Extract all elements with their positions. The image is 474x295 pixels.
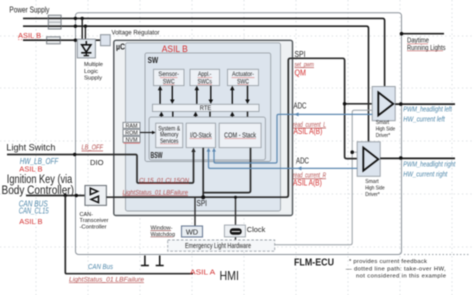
- wire power line 2: [23, 26, 369, 142]
- label ASIL B (power): [18, 31, 42, 40]
- label Smart High Side Driver 1: [376, 120, 396, 139]
- svg-text:BSW: BSW: [151, 151, 163, 160]
- svg-text:LightStatus_01 LBFailure: LightStatus_01 LBFailure: [69, 277, 145, 283]
- wire headlight left output: [395, 102, 455, 106]
- wire to clock: [234, 196, 237, 240]
- svg-text:ASIL B: ASIL B: [162, 44, 188, 54]
- smart high side driver 1: [372, 87, 395, 121]
- label Clock: [247, 225, 266, 234]
- label Voltage Regulator: [112, 29, 161, 36]
- svg-text:Emergency Light Hardware: Emergency Light Hardware: [185, 243, 251, 250]
- wire taps to multiple logic supply: [82, 18, 85, 40]
- label SPI (bus): [295, 49, 306, 59]
- wire headlight right output: [380, 156, 455, 160]
- dotted boundary continuation: [404, 254, 470, 256]
- svg-text:SPI: SPI: [197, 199, 208, 208]
- svg-text:ASIL A(B): ASIL A(B): [294, 127, 323, 136]
- label Ignition Key: [2, 172, 75, 197]
- svg-text:ASIL A: ASIL A: [190, 268, 216, 277]
- label CAN-Transceiver-Controller: [80, 212, 109, 230]
- Sensor-SWC block: [154, 69, 185, 85]
- svg-text:WD: WD: [186, 227, 198, 236]
- svg-text:FLM-ECU: FLM-ECU: [294, 258, 334, 269]
- svg-text:LightStatus_01 LBFailure: LightStatus_01 LBFailure: [123, 189, 189, 196]
- svg-text:HW_current right: HW_current right: [403, 172, 448, 179]
- svg-text:HW_current left: HW_current left: [403, 117, 445, 124]
- svg-text:set_pwm: set_pwm: [295, 61, 315, 68]
- footnote: [346, 259, 447, 279]
- svg-text:Supply: Supply: [84, 76, 102, 82]
- wire power line 3 to voltage regulator: [23, 39, 101, 41]
- svg-text:CL15_01 CL15ON: CL15_01 CL15ON: [139, 177, 189, 184]
- svg-text:LB_OFF: LB_OFF: [82, 145, 104, 152]
- label Multiple Logic Supply: [84, 62, 104, 82]
- wire ADC feedback right (blue): [207, 148, 358, 171]
- label CL15_01 CL15ON: [139, 177, 189, 184]
- wire SPI bus to drivers and watchdog: [286, 58, 372, 197]
- svg-text:DIO: DIO: [90, 158, 104, 167]
- Appl-SWCs block: [190, 69, 220, 85]
- svg-text:Voltage Regulator: Voltage Regulator: [112, 29, 161, 36]
- wire ADC feedback left (blue): [212, 112, 372, 163]
- wire power line 1: [23, 18, 385, 86]
- label set_pwm QM: [295, 61, 315, 77]
- svg-text:HMI: HMI: [220, 269, 240, 283]
- svg-text:Multiple: Multiple: [84, 62, 104, 68]
- svg-text:Smart: Smart: [365, 179, 379, 185]
- svg-text:Actuator-: Actuator-: [232, 71, 254, 78]
- svg-text:SPI: SPI: [295, 49, 306, 59]
- label Light Switch: [6, 142, 55, 152]
- voltage regulator block: [101, 35, 111, 46]
- svg-text:Appl.-: Appl.-: [198, 71, 211, 78]
- COM-Stack block: [219, 123, 261, 147]
- svg-text:PWM_headlight right: PWM_headlight right: [403, 161, 456, 168]
- label ASIL B (CAN): [19, 217, 42, 226]
- wire daytime running lights: [400, 32, 444, 36]
- ground symbol 2: [156, 256, 164, 266]
- ground symbol 1: [141, 256, 149, 266]
- label read_current_R / ASIL A(B): [293, 172, 326, 187]
- label HW_LB_OFF: [20, 157, 59, 166]
- svg-text:Logic: Logic: [84, 69, 98, 75]
- svg-text:CAN Bus: CAN Bus: [88, 264, 113, 271]
- label Daytime Running Lights: [407, 36, 446, 52]
- label DIO: [90, 158, 104, 167]
- label Window-Watchdog: [151, 225, 176, 237]
- label PWM_headlight left / HW_current left: [403, 106, 452, 123]
- svg-text:PWM_headlight left: PWM_headlight left: [403, 106, 452, 113]
- svg-text:CAN-: CAN-: [80, 212, 94, 218]
- window watchdog WD block: [182, 226, 203, 237]
- label Power Supply: [9, 4, 50, 14]
- label FLM-ECU: [294, 258, 334, 269]
- filter F1 on power lines: [48, 15, 61, 29]
- smart high side driver 2: [357, 142, 380, 177]
- svg-text:ADC: ADC: [296, 156, 309, 165]
- svg-text:Driver*: Driver*: [365, 192, 380, 198]
- label SPI (watchdog): [197, 199, 208, 208]
- label CAN BUS / CAN_CL15: [19, 199, 49, 215]
- svg-text:µC: µC: [116, 43, 125, 52]
- svg-text:RTE: RTE: [200, 105, 212, 112]
- wire IO-Stack junction to COM-Stack (upper horizontal): [203, 148, 250, 193]
- label read_current_L / ASIL A(B): [293, 122, 326, 136]
- label ASIL A: [190, 268, 216, 277]
- label CAN Bus: [88, 264, 113, 271]
- wire IO-Stack down to junction: [201, 148, 205, 199]
- svg-text:ASIL A(B): ASIL A(B): [293, 179, 322, 188]
- System Memory Services block: [156, 123, 183, 147]
- svg-text:— dotted line path: take-over: — dotted line path: take-over HW,: [346, 266, 446, 272]
- wire to window watchdog: [194, 197, 196, 226]
- wire CAN transceiver to SPI bus (lower horizontal): [106, 196, 287, 198]
- CAN transceiver controller block: [85, 186, 106, 206]
- svg-text:Sensor-: Sensor-: [158, 71, 179, 78]
- IO-Stack block: [186, 123, 215, 147]
- svg-text:RAM: RAM: [126, 123, 138, 129]
- label LightStatus_01 LBFailure (bottom): [69, 277, 145, 283]
- label PWM_headlight right / HW_current right: [403, 161, 456, 178]
- svg-text:SW: SW: [148, 55, 159, 65]
- svg-text:Light Switch: Light Switch: [6, 142, 55, 152]
- clock crystal: [224, 225, 245, 237]
- svg-text:NVM: NVM: [126, 137, 138, 143]
- SW box: [145, 53, 271, 162]
- label Smart High Side Driver 2: [365, 179, 385, 198]
- arrows SWC to RTE: [158, 86, 250, 104]
- Emergency Light Hardware block: [168, 240, 275, 251]
- microcontroller uC box: [114, 40, 293, 215]
- label LB_OFF: [82, 145, 104, 152]
- svg-text:QM: QM: [295, 68, 307, 77]
- svg-text:ASIL B: ASIL B: [18, 31, 41, 40]
- svg-text:* provides current feedback: * provides current feedback: [349, 259, 427, 265]
- wire light switch to IO-Stack: [7, 148, 196, 183]
- svg-text:ROM: ROM: [125, 130, 138, 136]
- wire ignition key to CAN transceiver: [26, 194, 85, 197]
- ROM block: [123, 129, 140, 136]
- arrows RTE to BSW: [159, 112, 250, 123]
- label ADC (left): [294, 101, 307, 110]
- svg-text:CAN_CL15: CAN_CL15: [19, 206, 49, 215]
- svg-text:-Controller: -Controller: [80, 224, 107, 230]
- label ASIL B (light switch): [19, 165, 42, 174]
- wire ROM to System Services: [140, 131, 156, 135]
- label ADC (right): [296, 156, 309, 165]
- multiple logic supply block: [77, 39, 95, 58]
- svg-text:ASIL B: ASIL B: [19, 217, 42, 226]
- FLM-ECU outer box: [76, 13, 402, 255]
- wire CAN bus to HMI: [65, 196, 193, 274]
- BSW box: [149, 117, 265, 160]
- wire take-over path from ELH: [275, 110, 373, 245]
- filter F2 on power line 3: [47, 37, 61, 44]
- svg-text:High Side: High Side: [376, 127, 396, 133]
- svg-text:Clock: Clock: [247, 225, 266, 234]
- Actuator-SWC block: [228, 69, 259, 85]
- svg-text:High Side: High Side: [365, 186, 385, 192]
- svg-text:Transceiver: Transceiver: [80, 218, 109, 224]
- NVM block: [123, 136, 140, 143]
- svg-text:not considered in this exampl: not considered in this example: [356, 273, 447, 279]
- svg-text:Smart: Smart: [376, 120, 390, 126]
- ASIL B software partition box: [126, 43, 281, 211]
- svg-text:Driver*: Driver*: [376, 133, 391, 139]
- label HMI: [220, 269, 240, 283]
- junction dots power lines: [74, 17, 87, 42]
- svg-text:Power Supply: Power Supply: [9, 4, 50, 14]
- label LightStatus_01 LBFailure: [123, 189, 189, 196]
- RTE bar: [153, 104, 260, 112]
- RAM block: [123, 122, 140, 129]
- svg-text:ADC: ADC: [294, 101, 307, 110]
